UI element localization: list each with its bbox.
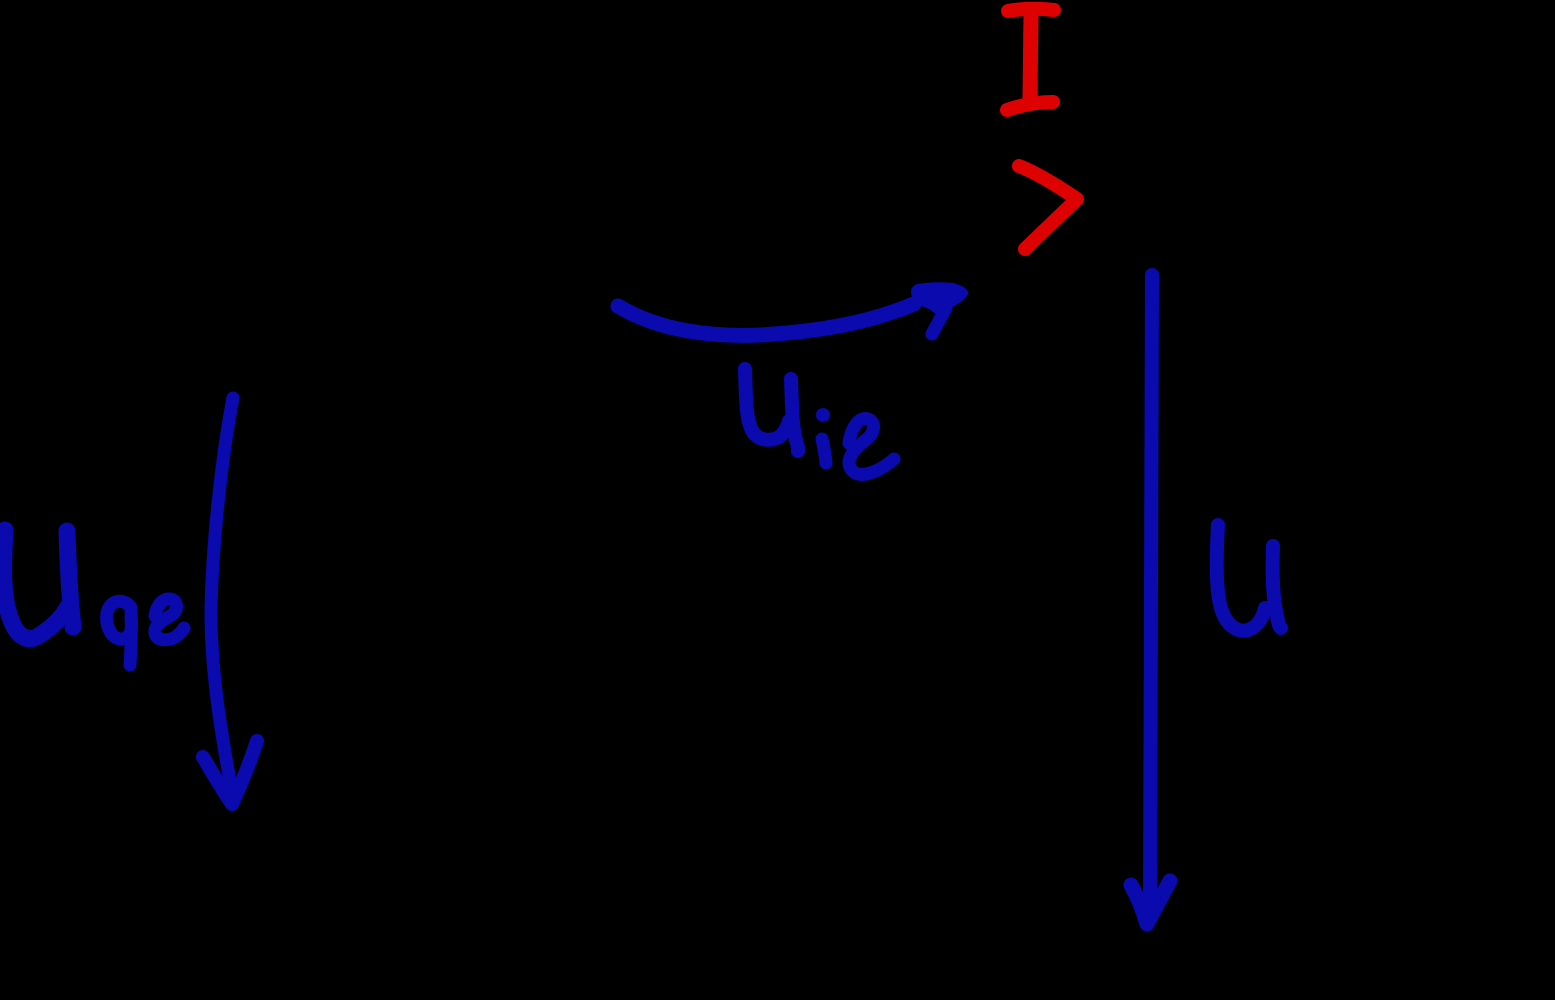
voltage arrow U_qe (left, curved vertical) — [203, 398, 257, 804]
current direction arrowhead (red chevron) — [1019, 166, 1077, 249]
voltage arrow u_ie (curved, pointing right) — [618, 282, 968, 335]
current label I (red) — [1007, 9, 1054, 110]
voltage arrow U (right side, long vertical) — [1131, 275, 1170, 924]
label u_ie — [745, 369, 894, 474]
label U (right) — [1217, 525, 1281, 631]
label U_qe (left) — [4, 530, 184, 665]
